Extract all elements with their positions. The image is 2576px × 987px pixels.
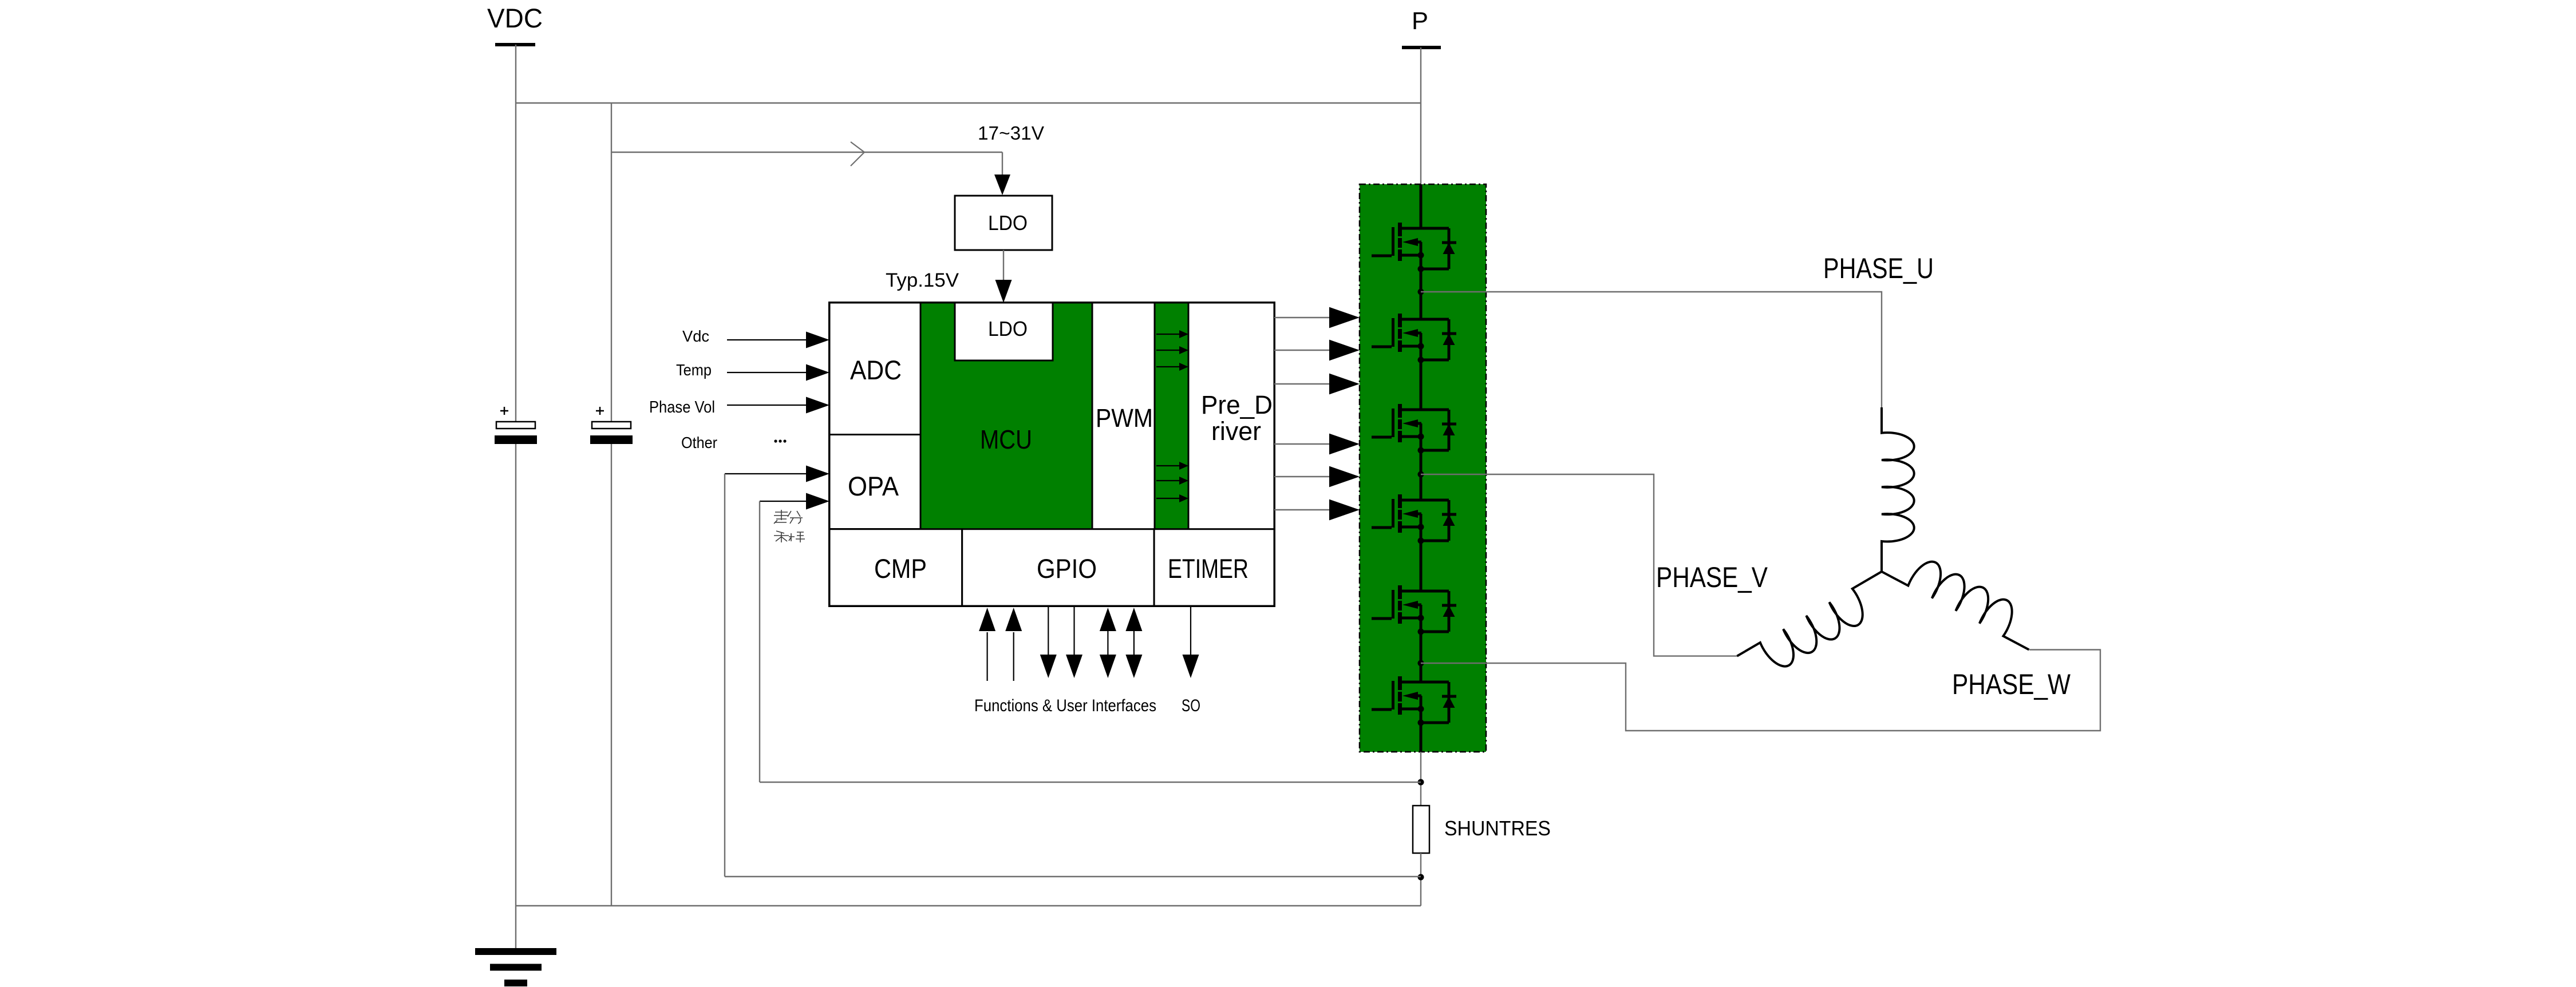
wire into LDO: [1002, 152, 1003, 176]
power stage green block: [1360, 184, 1486, 752]
svg-text:CMP: CMP: [874, 553, 927, 584]
GPIO up arrow 1: [986, 632, 987, 681]
transistor Q2 with body diode: [1372, 314, 1456, 363]
wire below C2: [611, 444, 612, 906]
wire Temp input: [727, 372, 807, 373]
wire inverter bus top: [1420, 184, 1423, 228]
wire VDC to P bus (top horizontal): [516, 102, 1421, 104]
small arrow PWM to Pre_Driver 3: [1156, 366, 1180, 367]
transistor Q5 with body diode: [1372, 585, 1456, 635]
wire inverter to shunt: [1420, 752, 1421, 806]
wire OPA input 2: [760, 501, 807, 502]
VDC terminal bar: [495, 43, 535, 46]
resistor SHUNTRES: [1413, 806, 1429, 853]
ETIMER box: [1154, 529, 1274, 606]
wire inverter bus segment 4: [1420, 514, 1423, 591]
arrowhead Pre_Driver output 5: [1329, 466, 1360, 487]
svg-text:P: P: [1412, 7, 1428, 35]
inductor winding V: [1737, 572, 1899, 685]
wire shunt bottom lead: [1420, 853, 1421, 906]
ground: [475, 948, 556, 986]
inductor winding W: [1882, 542, 2045, 650]
inductor winding U: [1882, 407, 1914, 572]
svg-text:17~31V: 17~31V: [978, 122, 1044, 144]
wire Pre_Driver output 4: [1274, 443, 1330, 445]
capacitor C1: [495, 407, 537, 444]
svg-text:ADC: ADC: [850, 355, 902, 385]
OPA box: [829, 435, 920, 529]
wire PHASE_U: [1421, 292, 1882, 407]
wire inverter bus segment 2: [1420, 333, 1423, 410]
wire Vdc input: [727, 339, 807, 340]
small arrow PWM to Pre_Driver 6: [1156, 498, 1180, 499]
node PHASE_W tap: [1418, 660, 1424, 667]
MCU outer block: [829, 303, 1274, 606]
arrowhead Phase Vol: [806, 397, 829, 414]
LDO regulator box U2: [955, 196, 1052, 250]
transistor Q6 with body diode: [1372, 676, 1456, 726]
wire Pre_Driver output 3: [1274, 383, 1330, 385]
GPIO down arrow 1: [1048, 607, 1049, 655]
capacitor C2: [590, 407, 633, 444]
svg-text:Temp: Temp: [676, 361, 712, 379]
svg-text:PHASE_V: PHASE_V: [1656, 561, 1768, 593]
svg-text:ETIMER: ETIMER: [1168, 553, 1249, 584]
svg-text:GPIO: GPIO: [1037, 553, 1097, 584]
svg-text:SO: SO: [1182, 696, 1200, 715]
GPIO down arrow 2: [1073, 607, 1074, 655]
svg-text:LDO: LDO: [988, 211, 1028, 235]
svg-text:Vdc: Vdc: [682, 327, 709, 345]
wire Pre_Driver output 1: [1274, 317, 1330, 318]
wire OPA input 1: [725, 473, 807, 474]
svg-text:PHASE_W: PHASE_W: [1952, 668, 2071, 700]
wire branch vertical upper: [611, 103, 612, 422]
wire inverter bus segment 6: [1420, 696, 1423, 752]
wire Phase Vol input: [727, 405, 807, 406]
P terminal bar: [1402, 46, 1441, 49]
inner LDO box: [955, 303, 1053, 360]
GPIO box: [962, 529, 1154, 606]
svg-text:MCU: MCU: [980, 425, 1032, 454]
svg-text:Phase Vol: Phase Vol: [649, 398, 715, 417]
arrowhead Pre_Driver output 3: [1329, 374, 1360, 395]
ETIMER SO arrow: [1190, 607, 1191, 655]
Pre_Driver box: [1188, 303, 1274, 529]
wire OPA feedback vertical 2: [759, 501, 760, 782]
node PHASE_V tap: [1418, 471, 1424, 478]
wire inverter bus segment 3: [1420, 423, 1423, 500]
small arrow PWM to Pre_Driver 1: [1156, 334, 1180, 335]
svg-text:SHUNTRES: SHUNTRES: [1444, 816, 1551, 840]
arrowhead Pre_Driver output 2: [1329, 340, 1360, 361]
wire inverter bus segment 1: [1420, 242, 1423, 319]
transistor Q4 with body diode: [1372, 494, 1456, 544]
node shunt top: [1418, 779, 1424, 786]
arrowhead into MCU: [995, 280, 1012, 303]
CMP box: [829, 529, 962, 606]
wire ground bus: [516, 905, 1421, 906]
wire VDC vertical upper: [515, 45, 516, 422]
svg-text:Pre_D: Pre_D: [1201, 390, 1273, 419]
wire Pre_Driver output 6: [1274, 509, 1330, 510]
svg-text:Functions & User Interfaces: Functions & User Interfaces: [974, 696, 1156, 715]
wire ground stem: [515, 906, 516, 948]
arrowhead Pre_Driver output 4: [1329, 434, 1360, 455]
arrowhead OPA 2: [806, 493, 829, 510]
wire 17~31V feed: [611, 152, 1002, 153]
GPIO up arrow 2: [1013, 632, 1014, 681]
wire Pre_Driver output 2: [1274, 350, 1330, 351]
ellipsis dots: [774, 439, 777, 442]
wire shunt sense upper: [760, 782, 1421, 783]
arrowhead Vdc: [806, 332, 829, 348]
wire Pre_Driver output 5: [1274, 476, 1330, 477]
small arrow PWM to Pre_Driver 2: [1156, 350, 1180, 351]
wire LDO to MCU: [1003, 250, 1004, 280]
svg-text:LDO: LDO: [988, 317, 1028, 340]
green strip right of PWM: [1155, 303, 1188, 529]
wire PHASE_V: [1421, 474, 1737, 656]
svg-text:PWM: PWM: [1096, 403, 1153, 433]
small arrow PWM to Pre_Driver 5: [1156, 480, 1180, 481]
PWM column: [1092, 303, 1155, 529]
svg-text:Other: Other: [681, 434, 717, 451]
wire inverter bus segment 5: [1420, 605, 1423, 682]
node PHASE_U tap: [1418, 289, 1424, 295]
svg-text:Typ.15V: Typ.15V: [886, 269, 959, 291]
node shunt bottom: [1418, 874, 1424, 881]
wire PHASE_W: [1421, 650, 2100, 731]
label chinese differential sampling: [774, 510, 805, 542]
svg-text:river: river: [1211, 417, 1261, 446]
transistor Q1 with body diode: [1372, 223, 1456, 272]
arrowhead OPA 1: [806, 466, 829, 482]
arrowhead into LDO: [994, 175, 1010, 195]
small arrow PWM to Pre_Driver 4: [1156, 465, 1180, 466]
ADC box: [829, 303, 920, 435]
svg-text:PHASE_U: PHASE_U: [1823, 252, 1934, 284]
arrowhead Temp: [806, 364, 829, 381]
MCU green core region: [920, 303, 1092, 529]
svg-text:VDC: VDC: [487, 3, 543, 33]
svg-text:OPA: OPA: [848, 471, 899, 501]
transistor Q3 with body diode: [1372, 404, 1456, 454]
GPIO double arrow 1: [1107, 629, 1108, 656]
chevron arrow on feed wire: [851, 142, 864, 166]
arrowhead Pre_Driver output 1: [1329, 307, 1360, 328]
wire below C1: [515, 444, 516, 906]
wire P vertical: [1420, 47, 1421, 184]
GPIO double arrow 2: [1133, 629, 1135, 656]
arrowhead Pre_Driver output 6: [1329, 500, 1360, 521]
wire OPA feedback vertical 1: [724, 474, 725, 877]
wire shunt sense lower: [725, 876, 1421, 877]
